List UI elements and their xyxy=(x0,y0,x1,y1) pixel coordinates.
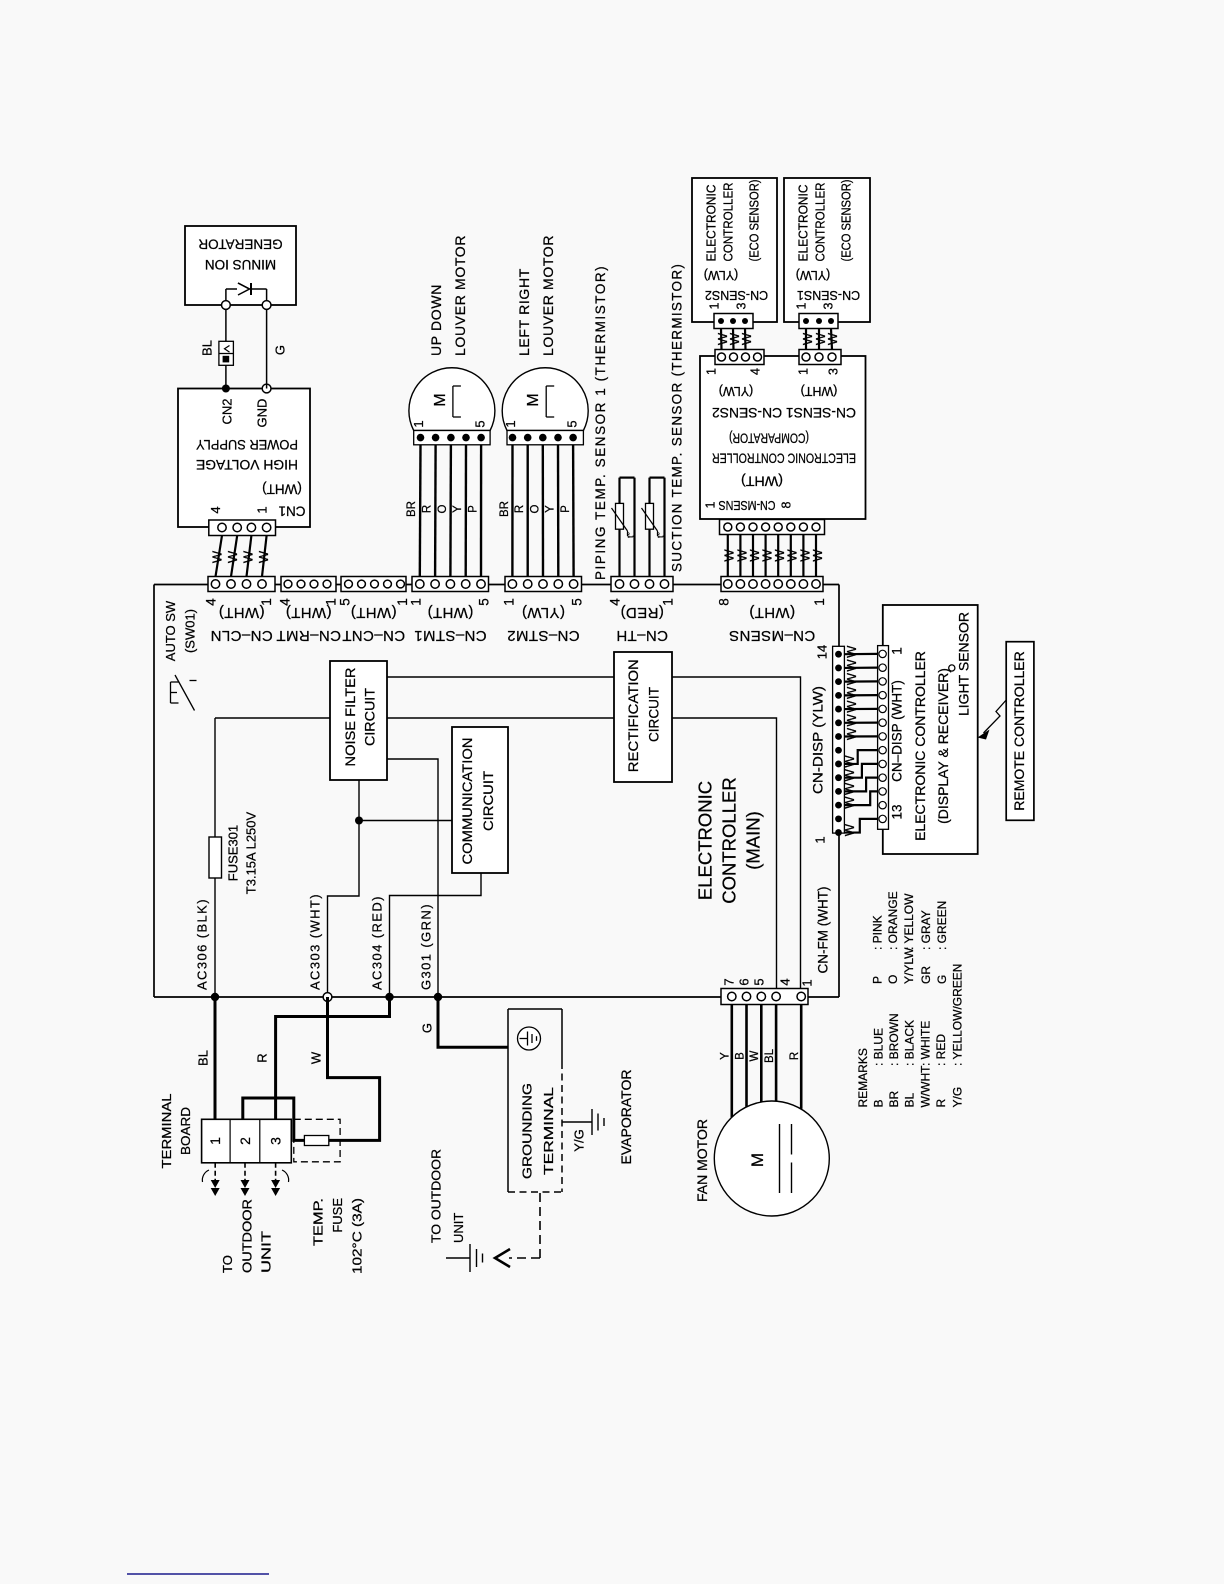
terminal board box xyxy=(202,1119,292,1163)
wires UP DOWN motor to connector with color labels xyxy=(406,445,481,577)
svg-text:CIRCUIT: CIRCUIT xyxy=(363,688,378,746)
svg-text:(YLW): (YLW) xyxy=(522,604,565,621)
svg-text:(WHT): (WHT) xyxy=(350,604,396,621)
svg-text:BR: BR xyxy=(406,501,418,517)
svg-text:W: W xyxy=(825,332,840,345)
wires CN1 to CN-CLN with W color marks xyxy=(209,536,271,577)
fuse symbol on BL wire xyxy=(219,341,234,365)
svg-text:P: P xyxy=(870,976,884,984)
svg-text:CN–MSENS: CN–MSENS xyxy=(729,627,816,644)
svg-text:5: 5 xyxy=(338,598,353,606)
connector CN-STM2 xyxy=(505,577,582,592)
wire G G301 to grounding terminal xyxy=(438,997,508,1047)
motor LEFT RIGHT LOUVER MOTOR xyxy=(502,368,588,445)
wire rectification to CN-FM pin4 xyxy=(672,718,777,989)
svg-text:W: W xyxy=(844,686,859,699)
svg-text:(WHT): (WHT) xyxy=(285,604,331,621)
wires eco2 to CN-SENS1 with W marks xyxy=(800,329,840,350)
svg-text:: BLUE: : BLUE xyxy=(871,1028,885,1066)
svg-text:BL: BL xyxy=(764,1048,776,1063)
svg-text:HIGH VOLTAGE: HIGH VOLTAGE xyxy=(196,457,298,473)
diode inside minus ion generator xyxy=(226,283,267,301)
svg-text:REMARKS: REMARKS xyxy=(856,1048,870,1107)
svg-text:W: W xyxy=(749,1050,761,1061)
svg-text:4: 4 xyxy=(208,506,223,513)
svg-text:W: W xyxy=(240,550,255,563)
wire noise-filter to G301 xyxy=(387,759,438,997)
pin numbers CN-CLN xyxy=(204,598,275,606)
svg-text:CIRCUIT: CIRCUIT xyxy=(481,771,496,831)
svg-text:GND: GND xyxy=(254,399,269,428)
svg-text:: PINK: : PINK xyxy=(870,915,884,950)
pin numbers CN-STM1 xyxy=(409,598,492,606)
svg-text:(YLW): (YLW) xyxy=(719,384,754,398)
pin numbers CN-STM2 xyxy=(502,598,585,606)
svg-text:1: 1 xyxy=(207,1137,223,1145)
auto switch SW01 xyxy=(163,600,198,710)
remote controller box with arrow xyxy=(978,642,1034,821)
svg-text:CN–DISP (WHT): CN–DISP (WHT) xyxy=(890,680,905,782)
svg-text:13: 13 xyxy=(890,804,905,819)
svg-text:W: W xyxy=(842,823,857,836)
connector CN-SENS2 on comparator xyxy=(715,350,764,365)
svg-text:8: 8 xyxy=(779,501,793,508)
svg-text:1: 1 xyxy=(502,598,517,606)
svg-text:AC303 (WHT): AC303 (WHT) xyxy=(307,893,322,990)
svg-text:t°: t° xyxy=(656,532,666,539)
svg-text:1: 1 xyxy=(707,302,721,309)
svg-text:B: B xyxy=(734,1052,746,1060)
svg-text:AC306 (BLK): AC306 (BLK) xyxy=(194,898,209,990)
wires comparator CN-MSENS to main CN-MSENS with W marks xyxy=(722,535,825,577)
svg-text:4: 4 xyxy=(777,978,792,985)
electronic controller (DISPLAY & RECEIVER) box xyxy=(883,605,978,854)
svg-text:FUSE301: FUSE301 xyxy=(225,825,240,881)
svg-text:1: 1 xyxy=(409,598,424,606)
svg-text:O: O xyxy=(437,504,449,513)
svg-text:4: 4 xyxy=(748,368,762,375)
node AC304 (RED) xyxy=(369,895,393,1001)
label LEFT RIGHT LOUVER MOTOR xyxy=(516,235,556,356)
svg-text:CIRCUIT: CIRCUIT xyxy=(646,687,661,742)
svg-text:6: 6 xyxy=(736,978,751,985)
svg-text:M: M xyxy=(748,1153,767,1167)
svg-text:7: 7 xyxy=(721,978,736,985)
svg-text:M: M xyxy=(525,393,542,406)
dashed wire grounding terminal to outdoor earth xyxy=(495,1193,540,1267)
connector CN-DISP (YLW) on main box xyxy=(833,646,845,836)
svg-text:PIPING TEMP. SENSOR 1 (THERMIS: PIPING TEMP. SENSOR 1 (THERMISTOR) xyxy=(593,265,608,580)
svg-text:M: M xyxy=(432,393,449,406)
label CN-DISP (YLW) with pin numbers 14 and 1 xyxy=(811,645,830,844)
pin numbers CN-CNT xyxy=(338,598,411,606)
eco sensor box 2 (CN-SENS1) xyxy=(784,178,870,322)
label CN-MSENS (WHT) xyxy=(729,604,816,644)
svg-text:BR: BR xyxy=(887,1090,901,1107)
connector CN-SENS1 on comparator xyxy=(799,350,841,365)
svg-text:CN-SENS1: CN-SENS1 xyxy=(797,288,860,302)
svg-text:: BROWN: : BROWN xyxy=(887,1013,901,1066)
wire noise-filter to rectification lower xyxy=(387,717,614,719)
svg-text:W: W xyxy=(842,782,857,795)
electronic controller (MAIN) box outline xyxy=(154,585,839,998)
svg-text:(WHT): (WHT) xyxy=(801,384,838,398)
wire W AC303 to temp fuse to terminal 2 xyxy=(328,997,380,1140)
svg-text:FAN MOTOR: FAN MOTOR xyxy=(694,1119,710,1202)
svg-text:CN–CNT: CN–CNT xyxy=(342,627,405,644)
wires LEFT RIGHT motor to connector with color labels xyxy=(499,445,574,577)
svg-text:W: W xyxy=(842,796,857,809)
svg-text:(YLW): (YLW) xyxy=(796,268,831,282)
svg-text:1: 1 xyxy=(503,420,518,427)
svg-text:TO OUTDOOR: TO OUTDOOR xyxy=(428,1149,443,1243)
eco sensor box 1 (CN-SENS2) xyxy=(692,178,777,322)
wire junction to communication circuit xyxy=(359,820,452,822)
svg-text:GR: GR xyxy=(919,966,933,984)
label CN-STM1 (WHT) xyxy=(414,604,487,644)
svg-text:: BLACK: : BLACK xyxy=(903,1020,917,1066)
svg-text:(SW01): (SW01) xyxy=(182,609,197,653)
light sensor circle xyxy=(949,665,955,671)
connector CN-MSENS xyxy=(721,577,823,592)
fan motor xyxy=(714,1101,829,1216)
svg-text:O: O xyxy=(529,504,541,513)
svg-text:BOARD: BOARD xyxy=(178,1107,193,1155)
svg-text:CN-FM (WHT): CN-FM (WHT) xyxy=(816,887,831,974)
svg-text:G: G xyxy=(419,1023,434,1033)
thermistor suction temp sensor xyxy=(642,478,666,577)
earth symbol evaporator xyxy=(592,1109,604,1135)
svg-text:CN–STM2: CN–STM2 xyxy=(507,627,580,644)
communication circuit box xyxy=(452,727,508,873)
svg-text:CONTROLLER: CONTROLLER xyxy=(813,183,827,262)
svg-text:4: 4 xyxy=(204,598,219,606)
connector CN-CLN xyxy=(208,577,275,592)
svg-text:(YLW): (YLW) xyxy=(704,268,739,282)
label CN-CNT (WHT) xyxy=(342,604,405,644)
svg-text:RECTIFICATION: RECTIFICATION xyxy=(626,659,641,772)
svg-text:REMOTE CONTROLLER: REMOTE CONTROLLER xyxy=(1011,651,1027,810)
svg-text:GROUNDING: GROUNDING xyxy=(519,1083,534,1179)
svg-text:: RED: : RED xyxy=(934,1034,948,1066)
svg-text:CONTROLLER: CONTROLLER xyxy=(721,183,735,262)
connector on eco sensor box 1 xyxy=(714,314,753,329)
connector CN1 on power supply xyxy=(208,506,276,535)
svg-text:W: W xyxy=(810,549,825,562)
wires CN-FM to fan motor with color labels xyxy=(720,1005,801,1118)
pin numbers CN-TH xyxy=(608,598,676,606)
svg-text:ELECTRONIC CONTROLLER: ELECTRONIC CONTROLLER xyxy=(912,651,928,841)
temp fuse 102C dashed box xyxy=(294,1119,340,1162)
svg-text:1: 1 xyxy=(890,647,905,655)
svg-text:LIGHT SENSOR: LIGHT SENSOR xyxy=(955,612,971,716)
svg-text:: YELLOW/GREEN: : YELLOW/GREEN xyxy=(951,964,965,1066)
label TO OUTDOOR UNIT (terminal board) xyxy=(220,1199,274,1273)
svg-text:(WHT): (WHT) xyxy=(741,473,783,488)
ground circle symbol xyxy=(518,1027,541,1050)
svg-text:(WHT): (WHT) xyxy=(262,481,302,496)
svg-text:(ECO SENSOR): (ECO SENSOR) xyxy=(747,180,761,262)
svg-text:: WHITE: : WHITE xyxy=(918,1021,932,1066)
svg-text:1: 1 xyxy=(794,302,808,309)
svg-text:1: 1 xyxy=(812,836,827,843)
svg-text:CN–TH: CN–TH xyxy=(616,627,668,644)
svg-text:TERMINAL: TERMINAL xyxy=(541,1087,556,1175)
wires eco1 to CN-SENS2 with W marks xyxy=(715,329,754,350)
high voltage power supply box xyxy=(178,389,310,528)
svg-text:W: W xyxy=(739,332,754,345)
svg-text:OUTDOOR: OUTDOOR xyxy=(239,1199,254,1273)
arrows terminal board to outdoor unit xyxy=(202,1163,288,1196)
svg-text:LOUVER MOTOR: LOUVER MOTOR xyxy=(452,235,468,356)
svg-text:CONTROLLER: CONTROLLER xyxy=(718,777,739,903)
svg-text:Y/G: Y/G xyxy=(951,1087,965,1108)
svg-text:GENERATOR: GENERATOR xyxy=(198,236,283,251)
svg-text:G: G xyxy=(272,345,287,355)
svg-text:5: 5 xyxy=(473,420,488,427)
noise filter circuit box xyxy=(330,661,387,780)
svg-text:SUCTION TEMP. SENSOR (THERMIST: SUCTION TEMP. SENSOR (THERMISTOR) xyxy=(669,263,684,572)
svg-text:R: R xyxy=(789,1052,801,1060)
svg-text:TO: TO xyxy=(220,1255,235,1273)
svg-text:1: 1 xyxy=(703,501,717,508)
svg-text:2: 2 xyxy=(237,1137,253,1145)
fuse FUSE301 xyxy=(209,718,258,997)
svg-text:G: G xyxy=(935,975,949,984)
label CN-CLN (WHT) xyxy=(210,604,272,644)
svg-text:POWER SUPPLY: POWER SUPPLY xyxy=(195,437,298,453)
svg-text:ELECTRONIC: ELECTRONIC xyxy=(704,185,718,262)
node CN2 terminal xyxy=(222,385,230,393)
svg-text:UP DOWN: UP DOWN xyxy=(428,284,444,356)
svg-text:14: 14 xyxy=(814,645,829,659)
svg-text:Y: Y xyxy=(720,1052,732,1060)
svg-text:Y/YLW: Y/YLW xyxy=(902,947,916,984)
connector CN-STM1 xyxy=(412,577,489,592)
svg-text:EVAPORATOR: EVAPORATOR xyxy=(618,1070,634,1165)
svg-text:W: W xyxy=(844,713,859,726)
svg-text:T3.15A L250V: T3.15A L250V xyxy=(243,811,258,894)
svg-text:W: W xyxy=(844,645,859,658)
rectification circuit box xyxy=(614,652,672,782)
svg-text:COMMUNICATION: COMMUNICATION xyxy=(460,738,475,865)
remarks legend xyxy=(856,891,965,1107)
svg-text:CN-DISP (YLW): CN-DISP (YLW) xyxy=(811,686,826,794)
svg-text:t°: t° xyxy=(626,532,636,539)
svg-text:3: 3 xyxy=(734,302,748,309)
svg-text:(WHT): (WHT) xyxy=(218,604,264,621)
svg-text:3: 3 xyxy=(826,368,840,375)
svg-text:W: W xyxy=(844,700,859,713)
svg-text:: GRAY: : GRAY xyxy=(919,910,933,950)
label TO OUTDOOR UNIT (ground) xyxy=(428,1149,466,1243)
wire R AC304 to terminal 3 xyxy=(276,997,390,1119)
connector on eco sensor box 2 xyxy=(799,314,838,329)
svg-text:ELECTRONIC CONTROLLER: ELECTRONIC CONTROLLER xyxy=(712,450,856,465)
svg-text:5: 5 xyxy=(477,598,492,606)
wire BL generator to CN2 via fuse xyxy=(225,305,227,389)
svg-text:R: R xyxy=(934,1099,948,1108)
svg-text:1: 1 xyxy=(812,598,827,606)
svg-text:TERMINAL: TERMINAL xyxy=(159,1094,174,1169)
svg-text:O: O xyxy=(886,975,900,984)
wire junction to AC303 xyxy=(328,821,360,998)
svg-text:FUSE: FUSE xyxy=(330,1198,345,1233)
svg-text:ELECTRONIC: ELECTRONIC xyxy=(694,781,715,900)
label CN-FM (WHT) xyxy=(816,887,831,974)
svg-text:1: 1 xyxy=(799,979,814,986)
svg-text:P: P xyxy=(560,505,572,513)
junction at noise filter / communication xyxy=(355,817,363,825)
svg-text:(ECO SENSOR): (ECO SENSOR) xyxy=(839,180,853,262)
svg-text:R: R xyxy=(422,505,434,513)
connector CN-TH xyxy=(611,577,673,592)
earth symbol to outdoor unit xyxy=(446,1244,483,1272)
svg-text:CN–STM1: CN–STM1 xyxy=(414,627,487,644)
svg-text:5: 5 xyxy=(565,420,580,427)
svg-text:1: 1 xyxy=(704,368,718,375)
label CN-STM2 (YLW) xyxy=(507,604,580,644)
svg-text:W: W xyxy=(225,550,240,563)
node AC303 (WHT) xyxy=(307,893,331,1001)
connector CN-RMT xyxy=(281,577,336,592)
svg-text:LEFT RIGHT: LEFT RIGHT xyxy=(516,268,532,356)
svg-text:CN–RMT: CN–RMT xyxy=(276,627,341,644)
svg-text:W: W xyxy=(256,550,271,563)
svg-text:W: W xyxy=(844,659,859,672)
label CN-RMT (WHT) xyxy=(276,604,341,644)
label UP DOWN LOUVER MOTOR xyxy=(428,235,468,356)
node GND terminal xyxy=(262,384,271,393)
grounding terminal box xyxy=(508,1009,562,1192)
minus ion generator box xyxy=(185,226,296,305)
svg-text:W: W xyxy=(842,755,857,768)
label ELECTRONIC CONTROLLER (MAIN) xyxy=(694,777,763,903)
svg-text:TEMP.: TEMP. xyxy=(310,1198,325,1246)
svg-text:LOUVER MOTOR: LOUVER MOTOR xyxy=(540,235,556,356)
svg-text:3: 3 xyxy=(821,302,835,309)
wire noise-filter to rectification upper xyxy=(387,676,614,678)
svg-text:BR: BR xyxy=(499,501,511,517)
svg-text:5: 5 xyxy=(570,598,585,606)
node G301 (GRN) xyxy=(418,903,442,1001)
svg-text:Y: Y xyxy=(545,505,557,513)
svg-text:1: 1 xyxy=(796,368,810,375)
svg-text:(COMPARATOR): (COMPARATOR) xyxy=(729,430,809,445)
generator terminal circles xyxy=(222,301,272,310)
svg-text:W: W xyxy=(844,672,859,685)
wire communication circuit to AC304 xyxy=(390,873,482,997)
svg-text:: ORANGE: : ORANGE xyxy=(886,891,900,950)
wire rectification to CN-FM pin1 xyxy=(672,677,801,989)
label GROUNDING TERMINAL xyxy=(519,1083,556,1179)
wires CN-DISP ribbon with W marks xyxy=(842,645,878,836)
svg-text:UNIT: UNIT xyxy=(259,1231,274,1273)
svg-text:Y/G: Y/G xyxy=(571,1129,586,1151)
svg-text:(WHT): (WHT) xyxy=(749,604,795,621)
svg-text:R: R xyxy=(514,505,526,513)
pin numbers CN-RMT xyxy=(278,598,339,606)
connector CN-FM on main box xyxy=(721,978,814,1004)
svg-text:3: 3 xyxy=(267,1137,283,1145)
svg-text:: YELLOW: : YELLOW xyxy=(902,893,916,950)
wire to evaporator earth Y/G xyxy=(562,1121,592,1123)
svg-text:R: R xyxy=(254,1053,269,1062)
wire noise-filter bottom to junction xyxy=(358,780,360,821)
svg-text:CN-MSENS: CN-MSENS xyxy=(719,498,776,512)
svg-text:G301 (GRN): G301 (GRN) xyxy=(418,903,433,990)
connector CN-CNT xyxy=(341,577,406,592)
connector CN-MSENS on comparator xyxy=(720,520,825,535)
svg-text:P: P xyxy=(467,505,479,513)
svg-text:(MAIN): (MAIN) xyxy=(742,811,763,870)
svg-text:CN-SENS1 CN-SENS2: CN-SENS1 CN-SENS2 xyxy=(712,405,856,420)
svg-text:CN-SENS2: CN-SENS2 xyxy=(705,288,768,302)
wire G generator to GND xyxy=(266,305,268,389)
pin numbers CN-MSENS xyxy=(717,598,828,606)
svg-text:MINUS ION: MINUS ION xyxy=(205,257,276,272)
electronic controller (COMPARATOR) box xyxy=(700,356,866,519)
svg-text:W/WHT: W/WHT xyxy=(918,1065,932,1108)
svg-text:: GREEN: : GREEN xyxy=(935,901,949,950)
wire fuse301 to noise filter xyxy=(215,717,330,719)
svg-text:BL: BL xyxy=(195,1050,210,1066)
svg-text:W: W xyxy=(209,550,224,563)
motor UP DOWN LOUVER MOTOR xyxy=(409,368,495,445)
thermistor piping temp sensor 1 xyxy=(612,478,636,577)
svg-text:Y: Y xyxy=(452,505,464,513)
temp fuse element xyxy=(304,1136,328,1146)
svg-text:1: 1 xyxy=(254,506,269,513)
label CN-TH (RED) xyxy=(616,604,668,644)
connector CN-DISP (WHT) on display controller xyxy=(878,646,889,830)
svg-text:(WHT): (WHT) xyxy=(427,604,473,621)
svg-text:CN1: CN1 xyxy=(278,503,305,518)
wire BL AC306 to terminal 1 xyxy=(214,997,217,1119)
footer rule xyxy=(127,1573,269,1575)
svg-text:W: W xyxy=(844,727,859,740)
label TERMINAL BOARD xyxy=(159,1094,193,1169)
svg-text:(RED): (RED) xyxy=(620,604,664,621)
svg-text:102°C (3A): 102°C (3A) xyxy=(349,1198,364,1274)
svg-text:BL: BL xyxy=(199,340,214,356)
node AC306 (BLK) xyxy=(194,898,219,1001)
svg-text:AC304 (RED): AC304 (RED) xyxy=(369,895,384,990)
label TEMP. FUSE 102C (3A) xyxy=(310,1198,364,1274)
svg-text:5: 5 xyxy=(751,978,766,985)
svg-text:B: B xyxy=(871,1099,885,1107)
svg-text:CN2: CN2 xyxy=(219,398,234,424)
svg-text:BL: BL xyxy=(903,1092,917,1107)
svg-text:1: 1 xyxy=(411,420,426,427)
svg-text:(DISPLAY & RECEIVER): (DISPLAY & RECEIVER) xyxy=(935,668,951,824)
svg-text:NOISE FILTER: NOISE FILTER xyxy=(343,667,358,766)
svg-text:8: 8 xyxy=(717,598,732,606)
svg-text:CN–CLN: CN–CLN xyxy=(210,627,272,644)
svg-text:W: W xyxy=(308,1051,323,1064)
svg-text:ELECTRONIC: ELECTRONIC xyxy=(796,185,810,262)
svg-text:UNIT: UNIT xyxy=(451,1213,466,1243)
svg-text:W: W xyxy=(842,768,857,781)
svg-text:AUTO SW: AUTO SW xyxy=(163,600,178,661)
